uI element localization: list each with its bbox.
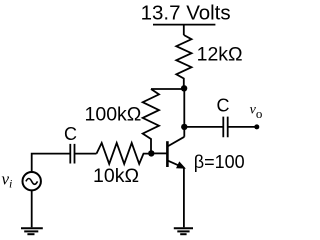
ground source bbox=[21, 228, 43, 234]
capacitor C2 plates bbox=[223, 117, 227, 138]
svg-text:13.7 Volts: 13.7 Volts bbox=[141, 1, 231, 24]
wire emitter vertical bbox=[183, 168, 185, 227]
transistor Q1 collector lead bbox=[167, 137, 184, 147]
wire rail to R1 bbox=[183, 25, 185, 35]
svg-text:vo: vo bbox=[250, 102, 263, 121]
node output junction bbox=[181, 124, 187, 130]
power rail bbox=[153, 24, 215, 26]
svg-text:vi: vi bbox=[2, 170, 13, 191]
wire source to C1 bbox=[32, 154, 71, 172]
transistor Q1 emitter arrowhead bbox=[177, 162, 185, 168]
wire C1 to R3 bbox=[75, 153, 97, 155]
resistor R2 100k bbox=[143, 89, 159, 153]
wire base node to transistor base bbox=[151, 152, 166, 154]
svg-text:C: C bbox=[64, 124, 77, 144]
wire output node to C2 bbox=[184, 126, 223, 128]
transistor Q1 emitter lead bbox=[167, 160, 184, 168]
svg-text:C: C bbox=[217, 96, 230, 116]
node collector-top junction bbox=[181, 85, 187, 91]
wire collector vertical bbox=[183, 88, 185, 137]
svg-text:10kΩ: 10kΩ bbox=[93, 165, 139, 187]
resistor R1 12k bbox=[176, 35, 191, 88]
wire node to R2 top bbox=[151, 88, 184, 90]
node output terminal bbox=[254, 124, 259, 129]
transistor Q1 base bar bbox=[166, 141, 169, 167]
wire C2 to output terminal bbox=[228, 126, 257, 128]
svg-text:β=100: β=100 bbox=[194, 152, 245, 172]
capacitor C1 plates bbox=[70, 144, 74, 164]
ground emitter bbox=[174, 228, 193, 234]
svg-text:12kΩ: 12kΩ bbox=[197, 44, 243, 66]
node base junction bbox=[148, 150, 154, 156]
resistor R3 10k bbox=[97, 143, 152, 164]
wire source to ground bbox=[31, 190, 33, 227]
source V1 circle bbox=[23, 172, 41, 190]
source V1 sine bbox=[26, 179, 38, 185]
svg-text:100kΩ: 100kΩ bbox=[85, 103, 142, 125]
